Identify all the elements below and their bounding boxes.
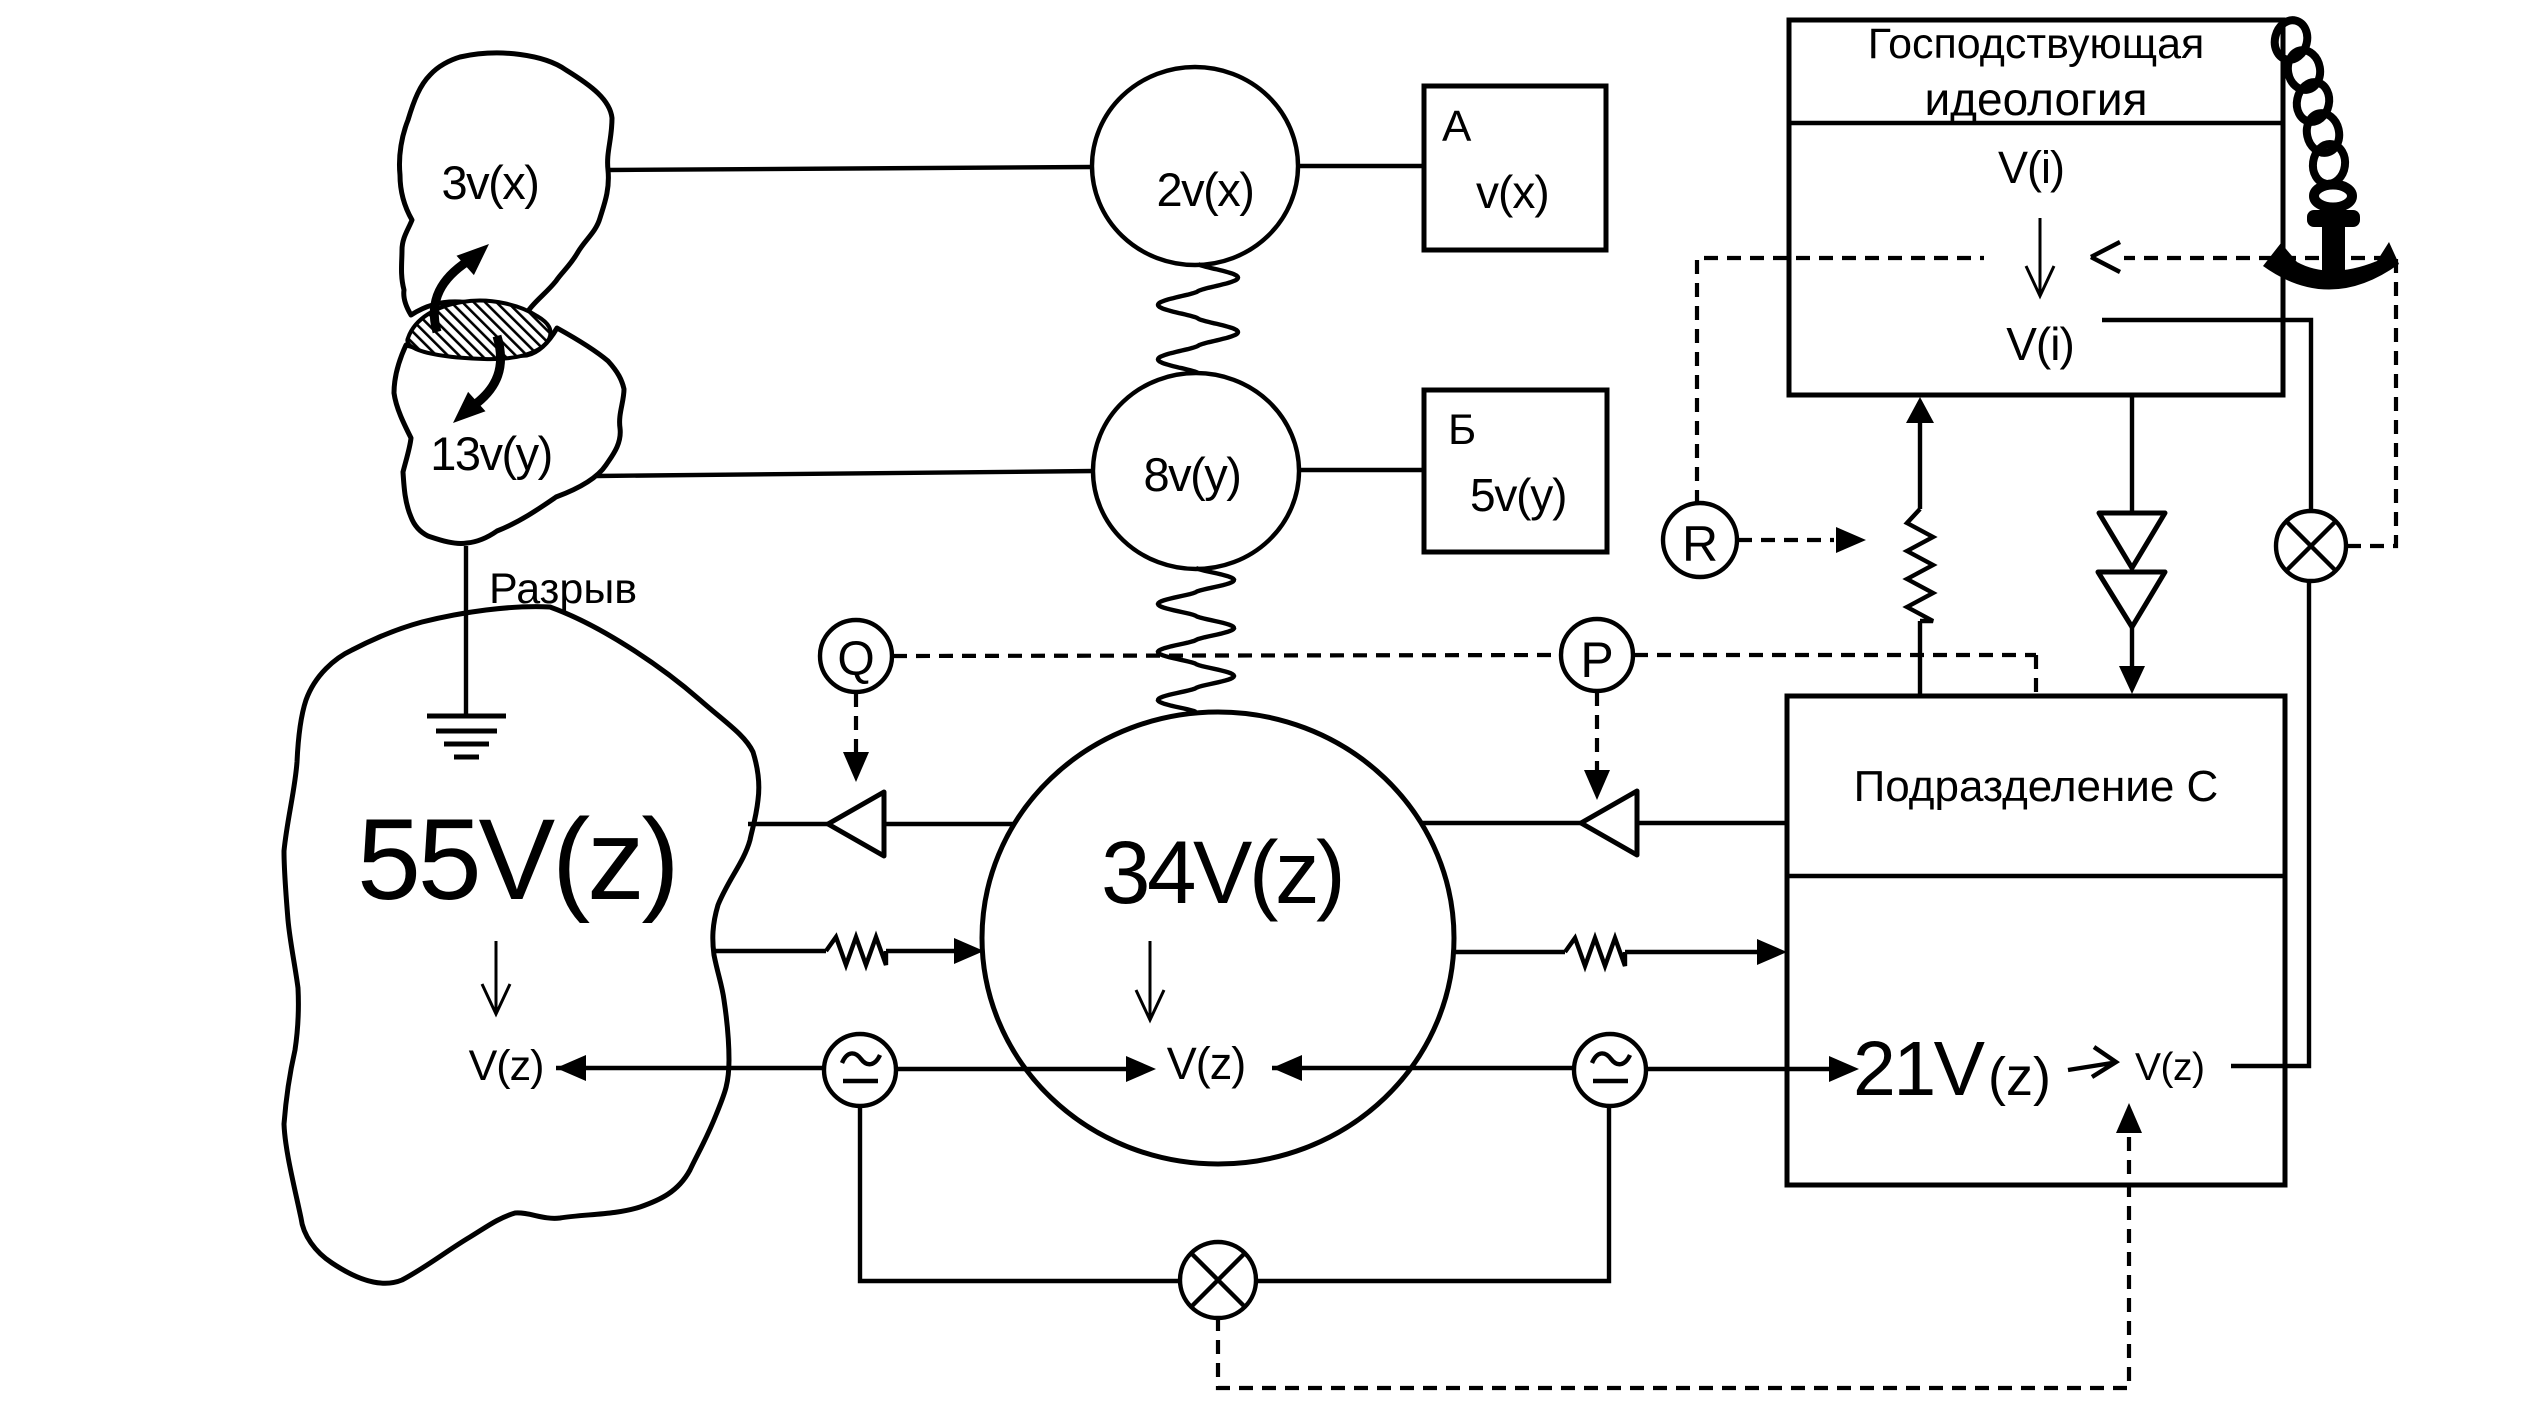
dashed wire P to box C: [1634, 655, 2036, 694]
wire AC right into box C: [1646, 1067, 1829, 1071]
svg-text:Р: Р: [1580, 632, 1613, 688]
svg-text:2v(x): 2v(x): [1157, 163, 1254, 216]
svg-text:Q: Q: [837, 633, 874, 686]
rock blob 3v(x): [399, 53, 612, 322]
diode pair down to box C: [2130, 396, 2134, 512]
multiplier circle bottom: [1180, 1242, 1256, 1318]
wire 8v(y) to box Б: [1299, 468, 1424, 472]
wire V(i) to multiplier: [2102, 320, 2311, 512]
generator circle 34V(z): [982, 712, 1454, 1164]
wire AC left to 34V V(z): [896, 1067, 1126, 1071]
down arrow between V(i): [2026, 218, 2054, 296]
wire AC left down: [860, 1106, 1182, 1281]
chain: [2271, 17, 2348, 186]
svg-text:34V(z): 34V(z): [1101, 822, 1342, 922]
multiplier circle top: [2276, 511, 2346, 581]
svg-text:(z): (z): [1988, 1047, 2051, 1107]
hatched contact ellipse: [407, 301, 550, 360]
svg-text:V(z): V(z): [1167, 1038, 1246, 1089]
curved arrow down: [473, 336, 501, 406]
AC source right: [1574, 1034, 1646, 1106]
svg-text:v(x): v(x): [1476, 166, 1549, 218]
wire V(z) row: blob arrow: [556, 1055, 586, 1081]
dashed from multiplier top to arrow: [2124, 258, 2396, 546]
mixer circle 2v(x): [1092, 67, 1298, 265]
wire blob to triangle Q: [748, 822, 828, 826]
left rock blob 55V(z): [284, 607, 759, 1284]
dashed R net left part: [1697, 258, 1984, 504]
svg-text:А: А: [1442, 102, 1472, 151]
box A: [1424, 86, 1606, 250]
vertical resistor to top box: [1906, 397, 1934, 423]
box Б: [1424, 390, 1607, 552]
signal P circle: [1561, 619, 1633, 691]
svg-text:V(i): V(i): [2006, 318, 2074, 370]
svg-text:идеология: идеология: [1924, 73, 2147, 125]
down arrow under 55V(z): [482, 941, 510, 1014]
svg-text:Б: Б: [1448, 406, 1476, 454]
spring coil 2: [1158, 568, 1234, 712]
signal R circle: [1663, 503, 1737, 577]
wire V(z) out to multiplier top: [2231, 581, 2309, 1066]
buffer triangle P: [1581, 791, 1637, 855]
svg-text:Господствующая: Господствующая: [1868, 20, 2205, 68]
svg-text:3v(x): 3v(x): [442, 156, 539, 209]
resistor right (34V to box C): [1454, 950, 1565, 954]
rock blob 13v(y): [394, 328, 624, 543]
svg-text:Подразделение С: Подразделение С: [1854, 762, 2219, 811]
svg-text:R: R: [1682, 516, 1718, 572]
svg-text:8v(y): 8v(y): [1144, 448, 1241, 501]
svg-text:55V(z): 55V(z): [357, 796, 677, 924]
open arrow dashed into box: [2091, 242, 2120, 272]
dashed arrow R to resistor: [1738, 538, 1834, 542]
down arrow in 34V circle: [1136, 941, 1164, 1020]
wire blob 13v(y) to mixer 8v(y): [597, 471, 1094, 476]
svg-text:V(z): V(z): [469, 1042, 544, 1090]
wire triangle Q to 34V circle: [884, 822, 1014, 826]
wire blob 13v(y) to ground: [464, 546, 468, 716]
dashed wire Q to P: [893, 655, 1560, 656]
AC source left: [824, 1034, 896, 1106]
small arrow glyph: [2068, 1047, 2116, 1077]
dashed arrow Q down: [854, 693, 858, 753]
box Господствующая идеология: [1789, 20, 2283, 395]
wire 2v(x) to box A: [1298, 164, 1424, 168]
curved arrow up: [434, 261, 468, 332]
svg-text:13v(y): 13v(y): [430, 427, 552, 480]
ground: [427, 716, 506, 757]
wire triangle P to 34V circle: [1421, 821, 1581, 825]
anchor: [2263, 185, 2399, 290]
wire multiplier to AC right: [1254, 1106, 1609, 1281]
wire box C to triangle P: [1637, 821, 1787, 825]
buffer triangle Q: [828, 792, 884, 856]
resistor left (blob to 34V): [713, 949, 826, 953]
signal Q circle: [820, 620, 892, 692]
dashed multiplier to box C 21V: [1218, 1132, 2129, 1388]
svg-text:5v(y): 5v(y): [1470, 469, 1566, 521]
svg-text:21V: 21V: [1853, 1026, 1986, 1112]
spring coil 1: [1158, 264, 1238, 373]
wire 34V V(z) from right: [1272, 1055, 1302, 1081]
wire blob 3v(x) to mixer 2v(x): [607, 167, 1092, 170]
dashed arrow P down: [1595, 692, 1599, 770]
mixer circle 8v(y): [1093, 373, 1299, 569]
svg-text:V(i): V(i): [1998, 142, 2064, 193]
box Подразделение С: [1787, 696, 2285, 1185]
svg-text:V(z): V(z): [2135, 1046, 2205, 1089]
